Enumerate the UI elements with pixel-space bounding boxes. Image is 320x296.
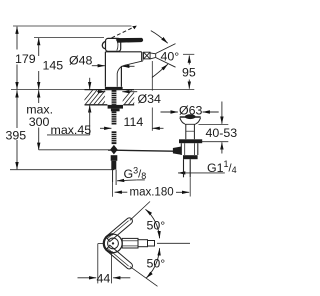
dimension 44	[98, 243, 105, 245]
thin hoses	[112, 170, 114, 182]
svg-text:max.180: max.180	[130, 187, 174, 199]
tailpipe	[183, 159, 185, 177]
lock collar	[179, 139, 202, 143]
handle axis extension lines	[130, 202, 150, 221]
svg-text:95: 95	[182, 66, 196, 80]
svg-text:Ø63: Ø63	[179, 104, 203, 118]
handle bottom position	[106, 245, 133, 269]
body + spout outline	[104, 52, 106, 87]
svg-text:40-53: 40-53	[206, 126, 238, 140]
aerator with cross	[144, 52, 151, 59]
rod joint knob	[110, 145, 118, 155]
dimension 114	[100, 61, 164, 131]
svg-text:300: 300	[29, 115, 50, 129]
dimension max.45 (counter thickness)	[47, 78, 90, 135]
leader G1 1/4	[178, 172, 225, 174]
spout centerline	[157, 242, 190, 244]
svg-text:145: 145	[43, 59, 64, 73]
svg-text:114: 114	[124, 115, 144, 129]
dimension max.180	[113, 170, 191, 197]
svg-text:395: 395	[6, 128, 27, 142]
dimension line 145/max300 (x=38.7)	[38, 38, 40, 150]
handle top position	[106, 218, 133, 242]
lever phantom raised (dashed)	[112, 27, 135, 38]
extension line / pop-up rod level (max300)	[39, 149, 108, 151]
plug knob	[185, 114, 196, 119]
spout top view	[122, 238, 138, 248]
shank below nut	[112, 111, 117, 124]
extension line: top of lifted lever	[13, 25, 132, 27]
40° wedge lines	[156, 44, 176, 54]
50° arcs	[146, 209, 160, 238]
countertop cross-section	[78, 86, 148, 108]
lever front flap	[102, 41, 106, 49]
extension line: top of lever at rest	[34, 36, 104, 38]
dimension Ø34 arrows	[97, 91, 105, 93]
lever neck / cartridge housing	[106, 38, 121, 51]
flange	[180, 116, 201, 118]
svg-text:50°: 50°	[147, 257, 166, 271]
svg-text:40°: 40°	[161, 50, 180, 64]
threaded shank	[108, 90, 123, 144]
shaft	[185, 124, 187, 139]
svg-text:Ø48: Ø48	[69, 54, 93, 68]
braided hose	[112, 131, 117, 144]
svg-text:179: 179	[15, 52, 36, 66]
hose connector blocks	[111, 155, 118, 161]
mounting nut	[108, 105, 123, 109]
aerator swivel arc arrows	[151, 31, 168, 44]
dimension 95	[183, 54, 194, 88]
dimension Ø48 arrows	[92, 65, 105, 67]
pop-up rod	[108, 150, 173, 151]
drain body	[180, 143, 182, 155]
rod connector	[173, 147, 181, 155]
extension line: counter top level, left and right	[11, 89, 85, 91]
svg-text:max.45: max.45	[51, 123, 92, 137]
extension line: bottom of hoses (395)	[10, 169, 114, 171]
leader G3/8	[137, 179, 145, 181]
base plate	[105, 87, 123, 90]
svg-text:44: 44	[97, 272, 111, 286]
svg-text:50°: 50°	[147, 219, 166, 233]
dimension line 179/395 (x=17)	[16, 27, 18, 170]
joint band	[183, 155, 198, 159]
lever handle bar	[116, 38, 143, 43]
body circle	[104, 234, 122, 252]
dimension Ø63	[161, 111, 178, 113]
dimension 40-53	[199, 102, 229, 154]
svg-text:Ø34: Ø34	[138, 92, 162, 106]
